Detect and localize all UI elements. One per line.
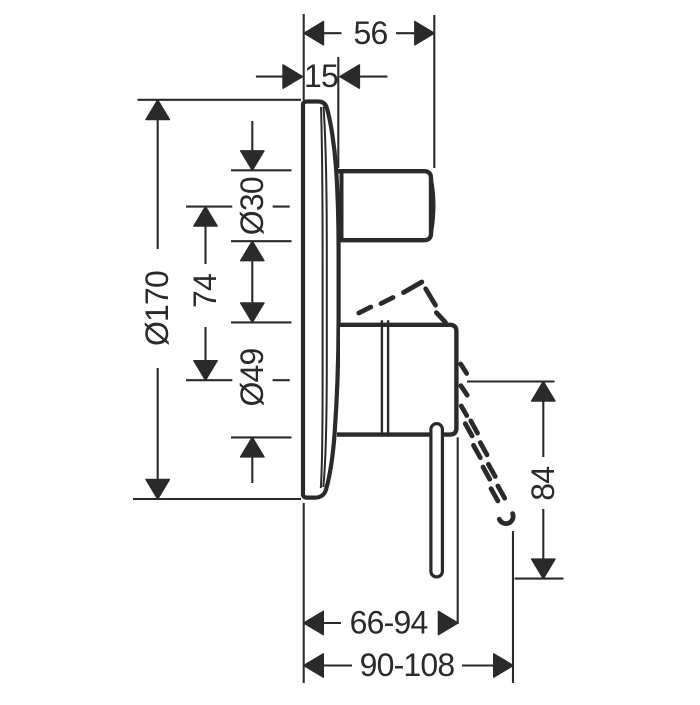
- extension line: box top (y=170.3): [231, 169, 292, 171]
- extension line: cartridge axis right (y=381.5 for 84): [467, 380, 555, 382]
- svg-text:15: 15: [304, 58, 338, 94]
- valve box outline: [337, 171, 431, 240]
- dimension 74: top arrow: [194, 207, 217, 227]
- dimension 15: left shaft and arrow: [256, 76, 284, 78]
- svg-text:66-94: 66-94: [350, 605, 428, 641]
- dimension 15: right arrow and shaft: [340, 65, 360, 88]
- lower dashed lever: right edge: [471, 421, 505, 498]
- extension line: plate top (y=99.8): [138, 99, 302, 101]
- dimension 84: line: [542, 382, 544, 458]
- extension line: sleeve top (y=322.4): [231, 321, 292, 323]
- sleeve groove line 2: [387, 320, 389, 436]
- extension line: lever bottom (y=578.6 for 84): [515, 578, 564, 580]
- dimension 56: left arrow: [304, 22, 324, 45]
- svg-text:84: 84: [525, 467, 561, 501]
- dimension D170: line: [157, 100, 159, 249]
- extension line: sleeve bottom (y=437.4): [231, 436, 292, 438]
- dimension D170: top arrow: [146, 100, 169, 120]
- svg-text:74: 74: [187, 274, 223, 308]
- dimension 56: right arrow: [415, 22, 435, 45]
- dimension 74: line: [204, 207, 206, 264]
- extension line: plate apex (x=338.3 for 15): [337, 57, 339, 168]
- svg-text:Ø170: Ø170: [139, 271, 175, 346]
- lower dashed lever: near-edge dashes: [461, 364, 468, 416]
- chain: D49 bottom leader with up arrow: [251, 437, 253, 483]
- centerline: box axis (y=206.6): [186, 206, 232, 208]
- chain: D30 top leader with down arrow: [251, 121, 253, 152]
- extension line: sleeve right face (x=457.7 for 66-94): [457, 437, 459, 624]
- extension line: box bottom (y=241.2): [231, 240, 292, 242]
- extension line: plate bottom (y=499): [133, 498, 301, 500]
- plate inner contour line L1: [321, 107, 323, 488]
- dimension 90-108: left arrow: [304, 654, 324, 677]
- dimension 66-94: right arrow: [438, 611, 458, 634]
- svg-text:90-108: 90-108: [360, 647, 455, 683]
- dimension 84: bottom arrow: [532, 559, 555, 579]
- dimension D170: bottom arrow: [146, 480, 169, 500]
- sleeve outline: [337, 325, 456, 435]
- lower dashed lever: left edge: [465, 424, 498, 501]
- valve box (spindle housing) fill: [340, 169, 433, 242]
- dimension 66-94: left arrow: [304, 611, 324, 634]
- svg-text:Ø49: Ø49: [234, 348, 270, 406]
- plate inner contour line L2: [323, 107, 327, 488]
- dimension 84: top arrow: [532, 382, 555, 402]
- dimension 90-108: line: [323, 664, 352, 666]
- svg-text:Ø30: Ø30: [234, 177, 270, 235]
- extension line: lever tip (x=513 for 90-108): [512, 531, 514, 683]
- sleeve (cartridge escutcheon) fill: [340, 323, 459, 437]
- chain: shared leader between D30 and D49: [251, 241, 253, 322]
- dimension 90-108: right arrow: [494, 654, 514, 677]
- svg-text:56: 56: [354, 15, 388, 51]
- extension line: plate face below (x=303.7 bottom): [303, 503, 305, 683]
- dimension 56: line: [304, 32, 342, 34]
- extension line: plate face above (x=303.7 top): [303, 14, 305, 100]
- valve box left cap line: [340, 171, 344, 240]
- sleeve groove line 1: [381, 320, 383, 436]
- valve box right face bulge: [431, 177, 434, 235]
- extension line: box right face (x=434.3 for 56): [433, 15, 435, 168]
- dimension 66-94: line: [323, 622, 341, 624]
- escutcheon plate outline: [303, 102, 339, 498]
- centerline: cartridge axis (y=380.2): [186, 379, 232, 381]
- dimension 74: bottom arrow: [194, 361, 217, 381]
- lower dashed lever: tip cap: [499, 514, 513, 524]
- upper dashed lever (rotated position): [359, 282, 446, 322]
- lever rod (down position): [431, 424, 443, 577]
